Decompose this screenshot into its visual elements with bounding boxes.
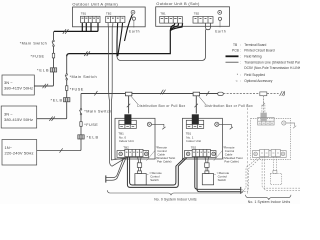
svg-text:Earth: Earth <box>215 29 226 33</box>
field earth mark (indoor 1) <box>162 127 165 129</box>
indoor unit 2 box <box>182 118 222 159</box>
remote control switch box (indoor 1) <box>135 174 146 185</box>
terminal board TB1 (indoor 2) <box>186 120 203 128</box>
fuse chain3 <box>80 122 82 127</box>
slash marker on unit3 drop <box>262 103 265 107</box>
svg-text:*Main Switch: *Main Switch <box>70 75 97 79</box>
svg-text:*FUSE: *FUSE <box>84 123 98 127</box>
terminator bar right <box>240 187 242 194</box>
remote cable label (indoor 2) <box>223 146 243 164</box>
svg-text:Switch: Switch <box>150 178 159 182</box>
svg-text:*FUSE: *FUSE <box>31 55 45 59</box>
remote control switch box (indoor 2) <box>202 174 213 185</box>
power supply box 3 (1N 220-240V for indoor units) <box>2 140 37 166</box>
ELB chain3 <box>78 135 84 139</box>
svg-text:*Main Switch: *Main Switch <box>20 41 47 45</box>
svg-text:Optional Accessory: Optional Accessory <box>244 79 273 83</box>
ELB chain2 <box>64 98 70 102</box>
wire chain1 feed + risers to TB1-A <box>54 23 98 31</box>
svg-text:TB2: TB2 <box>106 11 112 15</box>
svg-text:*Main Switch: *Main Switch <box>84 110 111 114</box>
svg-text:Earth: Earth <box>129 30 140 34</box>
svg-text:Indoor Unit: Indoor Unit <box>186 139 201 143</box>
splice capsule on bus <box>218 92 224 95</box>
terminal board TB2 base (indoor unit 3) <box>252 151 286 158</box>
svg-text:3N ~: 3N ~ <box>4 80 13 85</box>
svg-text:Terminal Board: Terminal Board <box>244 43 266 47</box>
remote control switch plug (indoor unit 3) <box>273 171 277 174</box>
label distribution box 1 with leader <box>131 96 138 104</box>
TB2 mounting screws (indoor 1) <box>119 152 148 156</box>
dashed wire pair TB2 down and right to next system (indoor unit 3) <box>262 157 300 191</box>
wires connector to switch (indoor 2) <box>206 167 208 171</box>
cable marker on chain1 lower wire <box>43 84 49 88</box>
wire pair left terminator bar (remote line start) <box>106 158 126 180</box>
wire chain3 upper to bus <box>80 94 82 109</box>
svg-text:Field Supplied: Field Supplied <box>244 73 265 77</box>
terminal board TB2 cells (indoor 1) <box>125 149 143 156</box>
cable marker chain2 lower <box>49 117 55 121</box>
svg-text:Indoor Unit: Indoor Unit <box>119 139 134 143</box>
wire pair indoor unit1 to unit2 (remote/transmission daisy) <box>127 157 186 187</box>
power supply box 2 (3N 380-415V for unit B) <box>1 106 37 128</box>
cable marker on bus middle <box>160 90 165 95</box>
svg-text:TB1: TB1 <box>81 11 87 15</box>
drop wire to indoor unit 2 <box>195 96 197 114</box>
remote switch connector (indoor 2) <box>205 163 209 168</box>
slash marker on bus left <box>94 91 97 96</box>
wires TB2 to remote switch connector (indoor 1) <box>138 157 142 163</box>
svg-text::: : <box>240 73 241 77</box>
svg-text:PCB: PCB <box>232 49 240 53</box>
svg-text:1N~: 1N~ <box>5 145 13 150</box>
wire chain1 upper <box>54 31 55 40</box>
bracket system 0 <box>107 190 243 195</box>
svg-text:Distribution Box or Pull Box: Distribution Box or Pull Box <box>137 104 185 108</box>
svg-text::: : <box>240 79 241 83</box>
slash marker on unit2 drop <box>195 104 198 108</box>
svg-text:TB2: TB2 <box>191 146 197 150</box>
cable connector into TB1 (indoor 1) <box>124 114 131 124</box>
svg-text:Printed Circuit Board: Printed Circuit Board <box>244 49 275 53</box>
terminal board TB1 (outdoor B) <box>160 17 183 24</box>
jumper loop TB2-B terminals 3-4 <box>206 23 211 29</box>
power bus (indoor units supply line) <box>81 93 218 95</box>
svg-text:380-415V 50Hz: 380-415V 50Hz <box>4 117 33 122</box>
drop wire to indoor unit 1 <box>128 96 130 114</box>
svg-text:Switch: Switch <box>218 178 227 182</box>
outdoor unit A box <box>73 7 146 27</box>
remote switch connector (indoor 1) <box>137 163 141 168</box>
svg-text:Transmission Line (Shielded Tw: Transmission Line (Shielded Twist Pair <box>244 60 300 64</box>
terminal board TB1 (outdoor A) <box>81 16 101 22</box>
remote cable label (indoor 1) <box>156 146 176 164</box>
svg-text::: : <box>240 60 241 64</box>
svg-text:TB2: TB2 <box>194 12 200 16</box>
legend thin line sample (transmission) <box>226 61 239 63</box>
label distribution box 2 with leader <box>199 96 206 104</box>
system separator dashed line <box>247 104 249 194</box>
leader to remote cable label (indoor 2) <box>214 150 223 161</box>
svg-text::: : <box>240 43 241 47</box>
main switch chain2 <box>65 74 67 80</box>
bracket system 1 <box>245 195 291 200</box>
earth wire (indoor 2) <box>219 124 231 127</box>
wire chain2 feed to TB1-B <box>67 23 183 56</box>
earth screw (indoor 2) <box>215 122 219 126</box>
svg-text::: : <box>240 49 241 53</box>
wire chain3 from power box3 up to switch <box>37 115 81 151</box>
svg-text::: : <box>240 54 241 58</box>
svg-text:Pair Cable): Pair Cable) <box>224 160 238 164</box>
wire pair indoor unit2 to right terminator bar <box>195 157 241 192</box>
wires TB2 to remote switch connector (indoor 2) <box>205 157 209 163</box>
svg-text:*FUSE: *FUSE <box>70 87 84 91</box>
svg-text:☆: ☆ <box>235 79 238 83</box>
earth lug outdoor A <box>131 10 135 27</box>
power supply box 1 (3N 380-415V for unit A) <box>2 75 34 95</box>
svg-text:Pair Cable): Pair Cable) <box>157 160 171 164</box>
cable marker chain2 feed <box>84 51 90 56</box>
earth screw (indoor unit 3) <box>282 121 286 125</box>
slash marker on bus before capsule <box>206 91 209 96</box>
indoor unit 1 box <box>115 118 155 159</box>
svg-text:Field Wiring: Field Wiring <box>244 54 262 58</box>
svg-text:No. 0 System Indoor Units: No. 0 System Indoor Units <box>154 197 197 201</box>
cable connector into TB1 (indoor 2) <box>192 114 199 124</box>
wire chain1 from power box1 up to switch <box>34 47 53 87</box>
wire TB2-A terminals 3,4 + earth (thick, down to A-B link corner) <box>117 15 132 57</box>
svg-text:220-240V 50Hz: 220-240V 50Hz <box>5 151 34 156</box>
svg-text:*ELB: *ELB <box>51 98 63 102</box>
fuse chain2 <box>66 86 68 91</box>
ELB chain1 <box>50 68 56 72</box>
distribution box for indoor unit 2 <box>193 92 200 96</box>
leader to remote cable label (indoor 1) <box>146 150 155 161</box>
dashed future bus extension <box>223 93 259 95</box>
wire pair TB2-A terminals 1,2 down to indoor unit 1 (transmission) <box>108 23 127 166</box>
terminator bar left <box>105 175 107 182</box>
svg-text:380-415V 50Hz: 380-415V 50Hz <box>4 86 33 91</box>
earth lug outdoor B <box>218 11 222 28</box>
remote control switch plug (indoor 1) <box>138 171 142 174</box>
earth wire (indoor 1) <box>152 124 164 127</box>
terminal board TB2 (outdoor A) <box>106 16 125 22</box>
svg-text:*ELB: *ELB <box>87 135 99 139</box>
field earth mark (indoor unit 3) <box>293 126 296 128</box>
indoor unit 3 (future) dashed box <box>251 119 291 160</box>
future pull box on dashed bus <box>260 92 267 96</box>
remote switch label tick (indoor 2) <box>214 173 216 175</box>
main switch chain1 <box>52 40 54 46</box>
earth wire (indoor unit 3) <box>286 123 295 126</box>
svg-text:Distribution Box or Pull Box: Distribution Box or Pull Box <box>205 104 253 108</box>
svg-text:TB2: TB2 <box>123 146 129 150</box>
remote control switch plug (indoor 2) <box>205 171 209 174</box>
main switch chain3 <box>80 109 82 115</box>
remote switch label (indoor 1) <box>149 171 162 182</box>
cable marker chain1 feed <box>63 29 69 34</box>
wire chain2 upper <box>66 56 68 73</box>
dashed wire pair from right bar up into TB2 (indoor unit 3) <box>241 157 260 191</box>
dashed wire pair into TB1 (indoor unit 3) <box>262 96 264 105</box>
terminal board TB2 base (indoor 2) <box>184 151 216 158</box>
break marks at dashed bus end <box>280 91 285 96</box>
svg-text:No. 1 System Indoor Units: No. 1 System Indoor Units <box>248 200 291 204</box>
terminal board TB1 (indoor unit 3) <box>258 117 274 125</box>
distribution box for indoor unit 1 <box>125 92 131 96</box>
legend thick line sample (field wiring) <box>226 55 239 57</box>
terminal board TB2 cells (indoor 2) <box>192 149 210 156</box>
slash marker on unit1 drop <box>127 104 130 108</box>
legend <box>232 43 302 83</box>
wire chain2 from power box2 up to switch <box>37 80 67 119</box>
outdoor unit B box <box>156 7 230 27</box>
svg-text:DC5V (Non-Pole Transmission H-: DC5V (Non-Pole Transmission H-LINK <box>244 66 300 70</box>
terminal board TB2 cells (indoor unit 3) <box>260 149 281 156</box>
TB2 mounting screws (indoor 2) <box>186 152 215 156</box>
svg-text:TB1: TB1 <box>160 12 166 16</box>
svg-text:Outdoor Unit A (Main): Outdoor Unit A (Main) <box>72 1 118 6</box>
remote switch label tick (indoor 1) <box>147 173 149 175</box>
svg-text:3N ~: 3N ~ <box>4 112 13 117</box>
TB2 mounting screws (indoor unit 3) <box>254 152 258 156</box>
remote control switch box (indoor unit 3) <box>270 173 281 184</box>
terminal board TB1 (indoor 1) <box>119 120 136 128</box>
svg-text:Outdoor Unit B (Sub): Outdoor Unit B (Sub) <box>156 1 200 6</box>
cable marker chain3 lower <box>60 148 63 152</box>
dashed wires TB2 to remote switch (indoor unit 3) <box>274 157 277 171</box>
wires connector to switch (indoor 1) <box>139 167 141 171</box>
remote switch label (indoor 2) <box>216 171 229 182</box>
earth screw (indoor 1) <box>147 122 151 126</box>
terminal board TB2 base (indoor 1) <box>117 151 149 158</box>
terminal board TB2 (outdoor B) <box>193 17 213 24</box>
svg-text:*ELB: *ELB <box>37 68 49 72</box>
dashed drop wire to future indoor unit 3 <box>262 96 264 115</box>
cable connector into TB1 (indoor unit 3) <box>261 113 267 121</box>
fuse chain1 <box>52 53 54 58</box>
field earth mark (indoor 2) <box>230 127 233 129</box>
wire A-B transmission link <box>117 30 206 61</box>
